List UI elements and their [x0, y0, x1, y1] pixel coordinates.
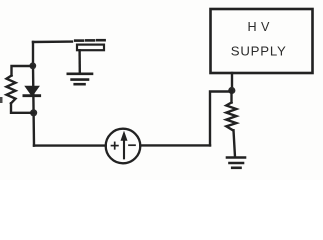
wire: HV supply output down to node A	[231, 73, 233, 91]
meter needle arrow	[121, 132, 127, 158]
node B (bottom junction of diode/resistor pair)	[30, 109, 37, 116]
wire: probe stem down to ground	[78, 50, 81, 73]
probe electrode P1 (plate under dashed line)	[77, 45, 104, 51]
wire: meter M1 left terminal to bottom-left corner	[34, 144, 106, 146]
label + (meter polarity)	[112, 142, 118, 148]
label - (meter polarity)	[129, 144, 135, 146]
wire: left vertical riser	[33, 42, 34, 146]
node C (top junction of diode/resistor pair)	[29, 62, 36, 69]
wire: resistor R2 to ground	[234, 130, 236, 157]
svg-text:H V: H V	[247, 20, 270, 34]
resistor R2 (load to ground)	[226, 103, 236, 131]
diode D1 (on main wire, cathode down)	[24, 87, 40, 96]
ground (below R2)	[227, 158, 245, 168]
wire: meter M1 right terminal to corner	[140, 144, 210, 146]
svg-text:SUPPLY: SUPPLY	[231, 44, 287, 59]
scan artifact at left edge	[0, 97, 3, 103]
wire: top horizontal run to dashed surface	[33, 40, 72, 43]
op meter M1 (current meter circle)	[106, 129, 141, 164]
node A (junction dot below supply)	[228, 87, 235, 94]
dashed surface line	[75, 39, 104, 42]
resistor R1 (parallel with diode)	[7, 76, 16, 104]
ground (below probe)	[68, 74, 92, 84]
wire: node A left then down to meter loop	[210, 92, 232, 146]
wire: node A down to resistor R2	[230, 91, 232, 103]
wire: node C left to resistor R1 branch	[12, 66, 33, 76]
wire: resistor R1 bottom to node B	[11, 103, 34, 113]
HV supply box	[211, 9, 313, 73]
